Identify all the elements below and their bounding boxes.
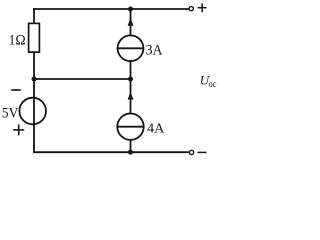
node B (3A top junction) <box>128 7 133 12</box>
wire left branch through voltage source <box>33 79 35 152</box>
svg-text:oc: oc <box>209 80 217 90</box>
minus sign of 5V source <box>12 89 20 91</box>
wire top <box>34 8 189 10</box>
terminal top-right <box>189 7 193 11</box>
voltage source 5V <box>19 98 46 125</box>
plus sign of 5V source <box>14 125 23 134</box>
wire bottom horizontal <box>34 151 189 153</box>
minus sign of terminal <box>198 151 205 153</box>
node C (mid wire / sources junction) <box>128 77 133 82</box>
svg-text:3A: 3A <box>146 43 163 59</box>
plus sign of terminal <box>198 4 205 11</box>
current source 4A <box>117 79 143 152</box>
svg-text:4A: 4A <box>147 122 165 137</box>
current source 3A <box>118 9 144 79</box>
node D (bottom wire junction) <box>128 150 133 155</box>
terminal bottom-right <box>190 150 194 154</box>
label Uoc <box>200 73 217 91</box>
svg-text:5V: 5V <box>2 106 19 122</box>
resistor 1Ω <box>29 23 40 52</box>
wire left-top vertical <box>33 9 35 23</box>
wire middle horizontal <box>34 78 131 80</box>
wire resistor bottom lead <box>33 53 35 79</box>
node A (resistor / mid wire junction) <box>32 77 37 82</box>
svg-text:1Ω: 1Ω <box>9 33 26 49</box>
